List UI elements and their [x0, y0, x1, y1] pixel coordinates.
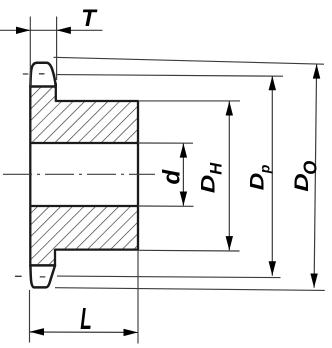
L dimension line: [30, 331, 139, 333]
hatched plate+hub section upper: [30, 87, 138, 144]
Dp dimension line: [271, 76, 273, 276]
T extension line left: [29, 17, 31, 88]
L arrow right-pointing: [124, 329, 139, 336]
bore top edge: [30, 142, 139, 144]
d dimension line: [182, 144, 184, 206]
DH extension top: [139, 100, 240, 102]
tooth bottom outline: [30, 265, 55, 287]
d extension bottom: [138, 205, 194, 207]
Dp extension bottom: [57, 276, 281, 278]
pitch line bottom dashes: [15, 275, 45, 278]
DO extension bottom: [55, 288, 325, 291]
T extension line right: [56, 17, 58, 81]
DO arrow down: [310, 274, 317, 288]
DO arrow up: [313, 64, 321, 78]
L arrow left-pointing: [30, 328, 45, 335]
svg-text:d: d: [159, 169, 186, 185]
T arrow right-pointing: [16, 27, 30, 34]
hatched plate+hub section lower: [30, 206, 138, 265]
T arrow left-pointing: [57, 27, 71, 34]
Dp arrow up: [269, 76, 276, 90]
DO dimension line: [314, 64, 317, 287]
svg-text:L: L: [80, 301, 92, 336]
plate right face lower: [54, 249, 56, 266]
axis centerline: [3, 173, 155, 175]
Dp arrow down: [269, 261, 276, 275]
tooth top outline: [30, 63, 55, 87]
hub top edge: [55, 100, 138, 102]
T dimension line: [0, 29, 103, 31]
DH dimension line: [228, 101, 230, 250]
hub bottom edge: [55, 248, 139, 250]
plate right face upper: [55, 83, 57, 102]
DH extension bottom: [139, 249, 240, 252]
DH arrow up: [226, 101, 233, 115]
d arrow down: [180, 192, 187, 206]
d arrow up: [180, 143, 187, 157]
pitch line top dashes: [23, 73, 45, 75]
Dp extension top: [56, 75, 283, 77]
L extension line left: [29, 290, 31, 343]
DH arrow down: [226, 236, 233, 250]
DO extension top: [54, 57, 325, 64]
L extension line right: [137, 250, 139, 344]
bore bottom edge: [30, 205, 139, 207]
svg-text:T: T: [81, 5, 98, 32]
left face: [29, 85, 31, 267]
d extension top: [138, 142, 193, 144]
hub right face: [137, 101, 139, 251]
